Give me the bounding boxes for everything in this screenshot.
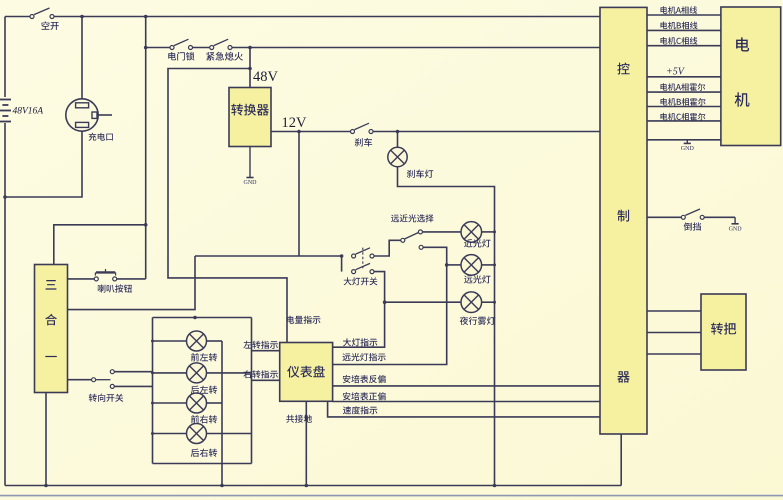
- node high beam tap: [445, 263, 449, 267]
- label headlight switch: [344, 277, 378, 285]
- wire hall A wire: [647, 91, 721, 93]
- node hb: [493, 263, 496, 266]
- label left indicator: [243, 341, 278, 349]
- label front-right: [191, 415, 217, 423]
- label emergency kill: [206, 52, 243, 61]
- node battery return: [3, 195, 7, 199]
- lamp high beam 远光灯: [461, 255, 482, 276]
- switch emergency kill 紧急熄火: [210, 39, 232, 49]
- wire reverse switch wire left: [647, 216, 682, 218]
- wire front-right lamp leads: [153, 402, 187, 404]
- lamp rear-right turn 后右转: [187, 424, 207, 444]
- wire ignition row mid: [193, 47, 210, 49]
- wire sanheyi 12V feed: [68, 256, 196, 310]
- wire dashboard common ground drop: [305, 401, 307, 485]
- wire lamp return bus: [221, 341, 223, 486]
- wire turn switch upper throw wire: [114, 371, 152, 373]
- label three-in-one 一: [45, 356, 57, 357]
- wire throttle wire 2: [647, 332, 701, 334]
- wire turn switch common wire: [68, 379, 92, 381]
- ground reverse GND: [729, 217, 743, 232]
- node rail tap D: [44, 484, 48, 488]
- label three-in-one 三: [46, 280, 57, 290]
- box controller 控制器: [600, 7, 647, 434]
- lamp front-right turn 前右转: [187, 393, 207, 413]
- wire 48V drop to converter: [249, 48, 251, 88]
- wire headlight switch tie: [341, 256, 343, 272]
- label headlamp indicator: [343, 338, 377, 346]
- label ammeter neg: [343, 375, 386, 383]
- label motor 机: [735, 92, 750, 106]
- label high beam indicator: [343, 353, 386, 361]
- label rear-left: [191, 386, 217, 394]
- node fog tap: [383, 300, 387, 304]
- wire brake lamp drop: [397, 132, 399, 148]
- bottom border line: [0, 495, 783, 497]
- switch high-low selector 远近光选择: [401, 230, 423, 249]
- push button horn 喇叭按钮: [94, 269, 116, 281]
- lamp brake light 刹车灯: [388, 147, 407, 166]
- wire battery gauge feed: [168, 69, 287, 343]
- wire 12V out of converter: [271, 131, 351, 133]
- label hall B: [661, 98, 706, 106]
- wire throttle wire 1: [647, 310, 701, 312]
- svg-text:+5V: +5V: [666, 67, 686, 78]
- wire bottom ground rail: [5, 485, 621, 487]
- wire ammeter negative wire: [333, 385, 600, 387]
- label phase A: [661, 6, 698, 14]
- wire front-right lamp right lead: [207, 402, 223, 404]
- node bus L3: [151, 402, 154, 405]
- wire rear-right lamp leads: [153, 433, 187, 435]
- label low beam: [464, 239, 490, 247]
- wire controller ground drop: [620, 434, 622, 486]
- wire ground bus from brake lamp: [398, 167, 495, 486]
- box three-in-one 三合一: [35, 265, 68, 393]
- wire high-low feed to selector: [374, 240, 401, 256]
- wire hall C wire: [647, 120, 721, 122]
- label turn switch: [89, 394, 124, 402]
- wire 12V distribution row: [195, 255, 342, 257]
- wire turn switch lower throw wire: [114, 385, 152, 387]
- node bus L2: [151, 371, 154, 374]
- label reverse: [684, 222, 701, 230]
- wire horn wire left: [68, 278, 95, 280]
- label phase C: [661, 37, 698, 45]
- wire horn wire right: [117, 278, 146, 280]
- svg-text:12V: 12V: [282, 115, 308, 131]
- wire turn lamp bottom bus: [153, 463, 252, 465]
- wire low beam feed: [422, 231, 461, 233]
- wire high beam to ground bus: [482, 264, 495, 266]
- label three-in-one 合: [45, 314, 57, 326]
- wire charge port stub pin: [98, 114, 112, 116]
- label throttle: [711, 323, 736, 335]
- wire tail lamp branch and headlamp indicator: [333, 272, 385, 348]
- svg-text:48V: 48V: [253, 69, 279, 85]
- node feed tap: [144, 15, 148, 19]
- wire 12V after brake switch to controller: [373, 131, 600, 133]
- label converter: [231, 104, 269, 116]
- node converter tap: [248, 46, 252, 50]
- wire battery positive riser: [4, 17, 6, 98]
- label speed indicator: [343, 406, 377, 414]
- wire top 48V rail breaker to controller: [54, 16, 600, 18]
- wire 48V feed down to ignition row: [145, 17, 147, 279]
- label ammeter pos: [343, 392, 386, 400]
- wire front-left lamp right lead: [207, 340, 223, 342]
- node 12V tap: [297, 130, 301, 134]
- svg-text:GND: GND: [244, 180, 258, 186]
- switch headlight switch lower pole: [352, 248, 374, 274]
- box motor 电机: [721, 7, 781, 146]
- node nb: [493, 230, 496, 233]
- node headlight tap: [340, 254, 344, 258]
- switch turn switch 转向开关: [92, 370, 115, 389]
- wire sanheyi ground drop: [45, 393, 47, 486]
- wire front-left lamp leads: [153, 340, 187, 342]
- wire charge port riser: [81, 17, 83, 100]
- wire turn lamp right bus: [251, 318, 253, 464]
- node brake lamp tap: [396, 130, 400, 134]
- switch headlight switch upper pole: [352, 248, 374, 258]
- wire speed indicator wire: [328, 401, 600, 417]
- lamp front-left turn 前左转: [187, 331, 207, 351]
- wire ignition row left: [146, 47, 170, 49]
- label phase B: [661, 22, 698, 30]
- svg-text:GND: GND: [729, 226, 743, 232]
- box throttle 转把: [701, 294, 746, 370]
- node bus L4: [151, 432, 154, 435]
- switch brake 刹车: [351, 123, 374, 133]
- box converter 转换器: [229, 88, 271, 147]
- label key lock: [168, 52, 194, 61]
- wire motor phase B wire: [647, 29, 721, 31]
- battery 48V16A: [0, 100, 11, 122]
- wire rear-right lamp right lead: [207, 433, 252, 435]
- label hi-lo selector: [391, 214, 434, 222]
- ground converter GND: [244, 147, 258, 187]
- wire night fog lamp to ground bus: [482, 301, 495, 303]
- label controller 制: [617, 210, 629, 222]
- node rail tap C: [493, 484, 497, 488]
- wire battery negative drop: [4, 123, 6, 486]
- wire sanheyi top feed: [54, 225, 146, 265]
- node rail tap A: [220, 484, 224, 488]
- label dashboard: [287, 366, 325, 378]
- label battery gauge: [287, 316, 321, 324]
- label high beam: [464, 275, 490, 283]
- wire +5V hall supply wire: [647, 76, 721, 78]
- ground motor hall GND: [681, 140, 695, 152]
- svg-text:48V16A: 48V16A: [13, 107, 44, 117]
- node lamp bus tap: [193, 316, 197, 320]
- switch key lock 电门锁: [170, 39, 193, 49]
- label charge port: [89, 133, 113, 141]
- label brake: [355, 138, 373, 147]
- wire night fog lamp feed: [385, 301, 461, 303]
- node charge tap: [80, 15, 84, 19]
- label motor 电: [736, 37, 749, 51]
- wire 12V drop: [298, 132, 300, 257]
- wire turn lamp top bus: [153, 317, 252, 319]
- wire right turn indicator wire: [252, 379, 280, 381]
- wire rear-left lamp leads: [153, 372, 187, 374]
- charge port socket: [66, 99, 98, 131]
- wire motor phase A wire: [647, 14, 721, 16]
- wire hall ground wire: [647, 139, 721, 141]
- lamp low beam 近光灯: [461, 222, 482, 243]
- lamp night fog 夜行雾灯: [461, 292, 482, 313]
- svg-text:GND: GND: [681, 146, 695, 152]
- label front-left: [191, 353, 217, 361]
- label controller 器: [617, 371, 629, 382]
- node ignition tap: [144, 46, 148, 50]
- wire charge port return: [5, 131, 82, 197]
- wire reverse switch wire right: [704, 216, 735, 218]
- wire rear-left lamp right lead: [207, 372, 252, 374]
- label hall C: [661, 113, 706, 121]
- wire low beam to ground bus: [482, 231, 495, 233]
- node gauge tap: [248, 67, 252, 71]
- wire turn lamp left bus: [152, 318, 154, 464]
- box dashboard 仪表盘: [280, 343, 333, 402]
- label common ground: [286, 415, 312, 423]
- label right indicator: [243, 370, 278, 378]
- wire motor phase C wire: [647, 45, 721, 47]
- node bus L1: [151, 340, 154, 343]
- wire left turn indicator wire: [252, 350, 280, 352]
- wire ignition row to controller: [232, 47, 600, 49]
- label controller 控: [617, 63, 629, 75]
- label breaker: [42, 21, 59, 30]
- wire high beam feed: [447, 264, 461, 266]
- wire battery + top rail to breaker: [5, 16, 30, 18]
- wire high beam select branch: [333, 247, 447, 364]
- node rail tap B: [305, 484, 309, 488]
- wire throttle wire 3: [647, 353, 701, 355]
- node sanheyi tap: [144, 223, 148, 227]
- switch reverse 倒挡: [681, 209, 704, 219]
- wire ammeter positive wire: [333, 401, 600, 403]
- label rear-right: [191, 449, 217, 457]
- label night fog lamp: [460, 317, 496, 325]
- label hall A: [661, 83, 706, 91]
- wire hall B wire: [647, 106, 721, 108]
- lamp rear-left turn 后左转: [187, 363, 207, 383]
- label brake light: [407, 170, 433, 178]
- switch breaker 空开: [30, 8, 54, 19]
- node fb: [493, 301, 496, 304]
- label horn button: [98, 284, 132, 292]
